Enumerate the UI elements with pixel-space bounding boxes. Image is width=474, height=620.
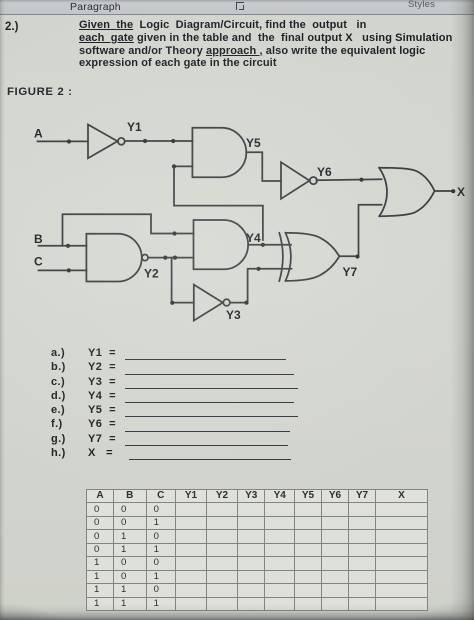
- label Y4: [246, 231, 261, 245]
- not-gate Y3: [194, 285, 230, 321]
- wire Y1 output to Y5 top input: [125, 140, 193, 142]
- node on Y2 output: [163, 256, 167, 260]
- node on Y4 output: [261, 243, 265, 247]
- svg-text:B: B: [34, 232, 43, 246]
- label Y6: [317, 165, 332, 179]
- svg-text:Y2: Y2: [144, 267, 159, 281]
- node on C wire: [67, 268, 71, 272]
- svg-text:Y7: Y7: [343, 265, 358, 279]
- wire Y3 output up to Y7 bottom input: [230, 269, 292, 303]
- xor-gate Y7: [279, 233, 339, 281]
- node on A wire: [67, 139, 71, 143]
- nand-gate Y2: [86, 234, 148, 282]
- node at Y3 tap: [173, 256, 177, 260]
- wire OR output to X: [435, 190, 452, 192]
- wire Y7 output to OR bottom input: [339, 205, 381, 257]
- wire Y2 output down to Y3 input: [172, 258, 194, 303]
- node on Y4 top input wire: [172, 231, 176, 235]
- label X output: [457, 185, 465, 199]
- not-gate Y6: [281, 162, 317, 199]
- wire Y4 output feedback to Y5 bottom input: [174, 166, 263, 240]
- svg-text:Y5: Y5: [246, 136, 261, 150]
- node on Y1 output: [143, 139, 147, 143]
- and-gate Y5: [192, 128, 246, 178]
- wire Y4 output to Y7 top input: [248, 244, 291, 246]
- label Y1: [127, 120, 142, 134]
- label Y7: [343, 265, 358, 279]
- node on B wire: [66, 244, 70, 248]
- and-gate Y4: [194, 220, 249, 269]
- wire Y2 output to Y4 bottom input: [148, 257, 193, 259]
- node at Y5 top input tap: [171, 139, 175, 143]
- wire B branch to Y4 top input: [63, 214, 194, 246]
- label Y3: [226, 308, 241, 322]
- label Y2: [144, 267, 159, 281]
- or-gate U-X final: [379, 168, 435, 217]
- label Y5: [246, 136, 261, 150]
- node at X: [451, 189, 455, 193]
- wire A to Y1: [38, 140, 89, 142]
- not-gate Y1: [88, 125, 125, 159]
- svg-text:X: X: [457, 185, 465, 199]
- node at Y3 output corner: [244, 301, 248, 305]
- svg-text:Y6: Y6: [317, 165, 332, 179]
- wire C to Y2 bottom input: [39, 269, 87, 271]
- svg-text:C: C: [34, 255, 43, 269]
- svg-text:Y3: Y3: [226, 308, 241, 322]
- ribbon strip: [0, 0, 474, 15]
- node at feedback corner: [172, 164, 176, 168]
- wire Y6 output to OR top input: [316, 178, 381, 181]
- svg-text:A: A: [34, 127, 43, 141]
- svg-text:Y1: Y1: [127, 120, 142, 134]
- svg-text:Y4: Y4: [246, 231, 261, 245]
- input C label: [34, 255, 43, 269]
- node on Y7 output: [355, 254, 359, 258]
- node at Y3 input corner: [170, 301, 174, 305]
- input B label: [34, 232, 43, 246]
- node on Y6 output wire: [359, 178, 363, 182]
- wire Y5 output to Y6 input: [246, 152, 281, 181]
- node on Y7 bottom input: [256, 267, 260, 271]
- wire B to Y2 top input: [39, 245, 87, 247]
- input A label: [34, 127, 43, 141]
